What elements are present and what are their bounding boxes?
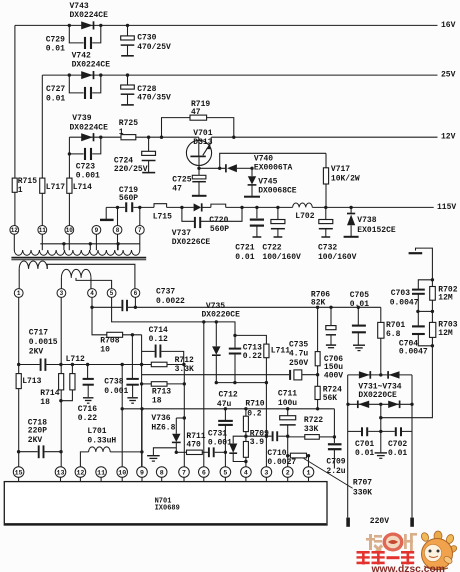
svg-text:1: 1 [307,469,311,476]
svg-text:18: 18 [152,396,162,405]
svg-text:C723: C723 [76,163,95,172]
svg-text:33K: 33K [304,425,319,434]
svg-text:R722: R722 [304,416,323,425]
svg-text:470: 470 [186,440,201,449]
svg-text:0.0047: 0.0047 [390,299,419,308]
svg-text:L713: L713 [22,377,41,386]
svg-text:C728: C728 [137,85,156,94]
svg-text:DX0224CE: DX0224CE [72,60,111,69]
svg-text:0.0047: 0.0047 [399,348,428,357]
svg-text:C721: C721 [235,244,254,253]
svg-text:6: 6 [202,469,206,476]
svg-text:C722: C722 [262,244,281,253]
svg-text:C710: C710 [267,449,286,458]
svg-text:0.001: 0.001 [76,172,100,181]
svg-text:C730: C730 [137,34,156,43]
svg-text:2: 2 [286,469,290,476]
svg-text:1: 1 [17,290,21,297]
svg-text:C737: C737 [156,288,175,297]
svg-text:560P: 560P [119,194,138,203]
svg-text:C729: C729 [46,35,65,44]
svg-text:C738: C738 [104,378,123,387]
svg-text:0.01: 0.01 [46,45,65,54]
svg-text:12: 12 [76,469,84,476]
svg-text:12: 12 [11,227,19,234]
svg-text:C714: C714 [149,326,168,335]
svg-text:EX0006TA: EX0006TA [254,163,293,172]
svg-text:2KV: 2KV [28,436,43,445]
svg-text:0.33uH: 0.33uH [87,437,116,446]
svg-text:3.9: 3.9 [250,438,265,447]
svg-text:EX0152CE: EX0152CE [357,226,396,235]
svg-text:DX0224CE: DX0224CE [70,123,109,132]
svg-text:C705: C705 [350,291,369,300]
svg-text:D313: D313 [193,138,212,147]
svg-text:0.2: 0.2 [247,409,262,418]
svg-text:R701: R701 [386,321,405,330]
svg-text:25V: 25V [441,71,456,80]
svg-text:L711: L711 [271,347,290,356]
svg-text:8: 8 [160,469,164,476]
svg-text:0.01: 0.01 [355,449,374,458]
svg-text:HZ6.8: HZ6.8 [151,424,175,433]
svg-text:330K: 330K [353,488,372,497]
svg-text:560P: 560P [210,225,229,234]
svg-text:V735: V735 [206,302,225,311]
svg-text:C712: C712 [219,391,238,400]
svg-text:9: 9 [95,227,99,234]
svg-text:C732: C732 [318,244,337,253]
svg-text:DX0220CE: DX0220CE [202,311,241,320]
svg-text:V717: V717 [331,165,350,174]
svg-text:R725: R725 [119,119,138,128]
svg-text:0.0027: 0.0027 [267,458,296,467]
svg-text:C702: C702 [388,440,407,449]
svg-text:IX0689: IX0689 [155,505,180,513]
svg-text:115V: 115V [437,203,456,212]
svg-text:2.2u: 2.2u [326,467,345,476]
svg-text:220V: 220V [370,517,389,526]
svg-text:47: 47 [191,108,201,117]
svg-text:0.22: 0.22 [78,414,97,423]
svg-text:12V: 12V [441,133,456,142]
svg-text:0.001: 0.001 [104,387,128,396]
svg-text:3.3K: 3.3K [175,365,194,374]
svg-text:6: 6 [134,290,138,297]
svg-text:47u: 47u [217,400,232,409]
svg-text:100/160V: 100/160V [318,253,357,262]
svg-text:10: 10 [100,345,110,354]
svg-text:R713: R713 [152,387,171,396]
svg-text:10: 10 [118,469,126,476]
svg-text:L715: L715 [153,213,172,222]
svg-text:100u: 100u [278,399,297,408]
svg-text:12M: 12M [438,294,453,303]
svg-text:R715: R715 [18,177,37,186]
svg-text:C703: C703 [391,289,410,298]
svg-text:C716: C716 [78,405,97,414]
svg-text:V740: V740 [254,155,273,164]
svg-text:3: 3 [60,290,64,297]
svg-text:56K: 56K [323,394,338,403]
svg-text:7: 7 [182,469,186,476]
svg-text:V736: V736 [151,414,170,423]
svg-text:0.0022: 0.0022 [156,297,185,306]
svg-text:5: 5 [223,469,227,476]
svg-text:www.dzsc.com: www.dzsc.com [371,564,445,572]
svg-text:DX0068CE: DX0068CE [258,186,297,195]
svg-text:13: 13 [57,469,65,476]
svg-text:V745: V745 [258,177,277,186]
svg-text:15: 15 [15,469,23,476]
svg-text:V739: V739 [72,114,91,123]
svg-text:5: 5 [110,290,114,297]
svg-text:3: 3 [264,469,268,476]
svg-text:0.01: 0.01 [350,300,369,309]
svg-text:C717: C717 [29,329,48,338]
svg-text:11: 11 [39,227,47,234]
svg-text:V737: V737 [172,229,191,238]
svg-text:C735: C735 [289,340,308,349]
svg-text:0.01: 0.01 [388,449,407,458]
svg-text:4: 4 [244,469,248,476]
svg-text:0.01: 0.01 [235,253,254,262]
svg-text:100/160V: 100/160V [262,253,301,262]
svg-text:18: 18 [40,398,50,407]
svg-text:8: 8 [116,227,120,234]
svg-text:V731~V734: V731~V734 [358,382,401,391]
svg-text:R712: R712 [175,356,194,365]
svg-text:4: 4 [90,290,94,297]
svg-text:L701: L701 [87,427,106,436]
svg-text:7: 7 [138,227,142,234]
svg-text:6.8: 6.8 [386,330,401,339]
svg-text:V742: V742 [72,51,91,60]
svg-text:12M: 12M [438,329,453,338]
svg-text:C701: C701 [355,440,374,449]
svg-text:V738: V738 [357,216,376,225]
svg-text:C720: C720 [209,216,228,225]
svg-text:10K/2W: 10K/2W [331,175,360,184]
svg-text:0.01: 0.01 [46,94,65,103]
svg-text:2KV: 2KV [29,347,44,356]
svg-text:L714: L714 [73,183,92,192]
svg-text:C709: C709 [326,458,345,467]
svg-text:47: 47 [172,185,182,194]
svg-text:R708: R708 [100,337,119,346]
svg-text:C727: C727 [46,85,65,94]
svg-text:16V: 16V [441,21,456,30]
svg-text:V743: V743 [70,2,89,11]
svg-text:L717: L717 [46,183,65,192]
svg-text:C711: C711 [278,390,297,399]
svg-text:220P: 220P [28,426,47,435]
svg-text:0.0015: 0.0015 [29,338,58,347]
svg-text:DX0220CE: DX0220CE [358,391,397,400]
svg-text:1: 1 [18,186,23,195]
svg-text:400V: 400V [324,372,343,381]
svg-text:0.12: 0.12 [149,335,168,344]
svg-text:R707: R707 [353,479,372,488]
svg-text:4.7u: 4.7u [289,350,308,359]
svg-text:82K: 82K [311,298,326,307]
svg-text:C725: C725 [172,175,191,184]
svg-text:1: 1 [119,128,124,137]
svg-text:0.22: 0.22 [243,352,262,361]
svg-text:0.001: 0.001 [208,439,232,448]
svg-text:250V: 250V [289,359,308,368]
svg-text:220/25V: 220/25V [114,165,148,174]
svg-text:10: 10 [66,227,74,234]
svg-text:C731: C731 [208,430,227,439]
svg-text:DX0226CE: DX0226CE [172,238,211,247]
svg-text:DX0224CE: DX0224CE [70,11,109,20]
svg-text:L702: L702 [295,212,314,221]
svg-text:9: 9 [140,469,144,476]
svg-text:470/25V: 470/25V [137,43,171,52]
svg-text:R714: R714 [40,389,59,398]
svg-text:R710: R710 [245,400,264,409]
svg-text:L712: L712 [66,355,85,364]
svg-text:470/35V: 470/35V [137,94,171,103]
svg-text:11: 11 [97,469,105,476]
